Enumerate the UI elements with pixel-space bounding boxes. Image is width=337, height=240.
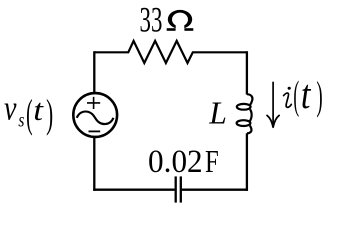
svg-text:): ) <box>316 73 322 118</box>
svg-text:33: 33 <box>140 1 163 40</box>
svg-text:s: s <box>18 109 24 131</box>
svg-text:(: ( <box>26 92 33 137</box>
svg-text:L: L <box>208 95 227 130</box>
svg-text:): ) <box>46 91 53 136</box>
svg-text:t: t <box>301 72 312 118</box>
svg-text:t: t <box>33 94 44 127</box>
svg-text:v: v <box>4 89 17 127</box>
svg-text:(: ( <box>293 73 299 117</box>
svg-text:F: F <box>205 145 219 180</box>
svg-text:0.02: 0.02 <box>148 143 203 179</box>
